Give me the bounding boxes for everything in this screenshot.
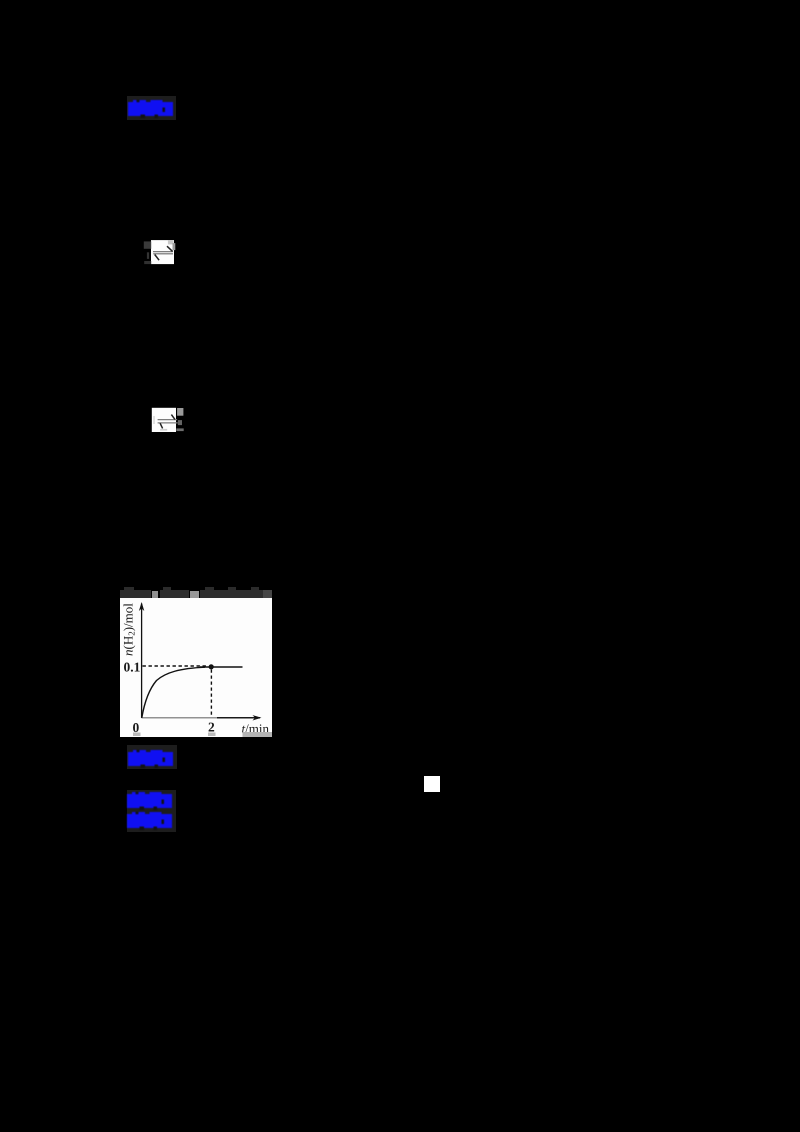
plateau solid line: [200, 666, 243, 668]
y-axis: [141, 604, 143, 719]
svg-text:0.1: 0.1: [124, 660, 141, 675]
curve: [142, 667, 205, 718]
blue tag [答案] (answer label 2) glyphs: [128, 750, 173, 768]
caption strip above graph (clipped scanned text row): [124, 587, 134, 590]
blue tag [答案] (answer label 1) glyphs: [128, 100, 173, 118]
blue tag [答案] (answer label 2) background box: [127, 745, 177, 769]
graph image: n(H2)/mol vs t/min: [120, 598, 272, 737]
svg-text:n(H2)/mol: n(H2)/mol: [121, 603, 137, 656]
blue tags [答案][解析] stacked background box: [127, 790, 176, 832]
x-axis: [142, 717, 217, 719]
equilibrium arrow image 1 (scanned ⇌ symbol): [143, 238, 177, 266]
gray scan patches: [133, 733, 141, 737]
dashed 0.1 level line: [143, 665, 209, 667]
blue tag [答案] (answer label 3) glyphs: [127, 792, 172, 810]
blue tag [答案] (answer label 1) background box: [127, 96, 176, 120]
equilibrium point dot: [209, 664, 214, 669]
svg-text:2: 2: [208, 720, 215, 735]
white square mark: [424, 776, 440, 792]
blue tag [解析] (analysis label) glyphs: [127, 812, 172, 830]
vertical dashed line at t=2: [210, 670, 212, 718]
equilibrium arrow image 2 (scanned ⇌ symbol with subscript): [151, 406, 185, 433]
